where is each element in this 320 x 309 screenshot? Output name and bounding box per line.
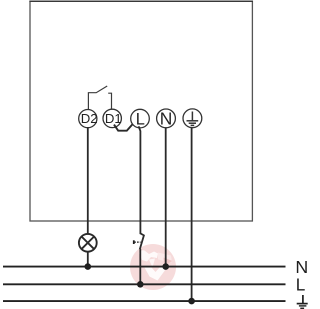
svg-text:L: L (296, 275, 306, 295)
wire N terminal to N rail (165, 128, 167, 267)
junction PE/PE-rail (188, 298, 195, 305)
N rail (3, 266, 286, 268)
jumper wire D1 to L (114, 124, 132, 130)
junction N/N-rail (162, 263, 169, 270)
wire lamp to N rail (87, 252, 89, 267)
watermark logo (130, 244, 176, 290)
terminal N (157, 108, 176, 128)
wire switch to L rail (139, 249, 141, 284)
junction lamp/N-rail (85, 263, 92, 270)
lamp (79, 234, 97, 252)
L rail (3, 283, 286, 285)
svg-text:D2: D2 (81, 111, 98, 126)
terminal L (131, 109, 150, 128)
wire PE terminal to PE rail (191, 128, 193, 301)
junction switch/L-rail (137, 281, 144, 288)
wire D2 to lamp (87, 128, 89, 234)
device enclosure box top edge (29, 0, 253, 2)
relay contact (internal switch between D2 and D1) (88, 86, 111, 109)
device enclosure box (30, 1, 252, 221)
PE rail earth symbol (297, 295, 308, 308)
terminal D2 (79, 110, 98, 128)
svg-text:L: L (136, 110, 145, 128)
terminal PE (earth) (183, 109, 202, 128)
switch (manual, in L wire) (134, 233, 144, 249)
svg-text:D1: D1 (105, 111, 122, 126)
wire L terminal to switch (139, 126, 141, 234)
PE rail (3, 300, 286, 302)
svg-text:N: N (160, 108, 173, 128)
terminal D1 (103, 109, 122, 127)
